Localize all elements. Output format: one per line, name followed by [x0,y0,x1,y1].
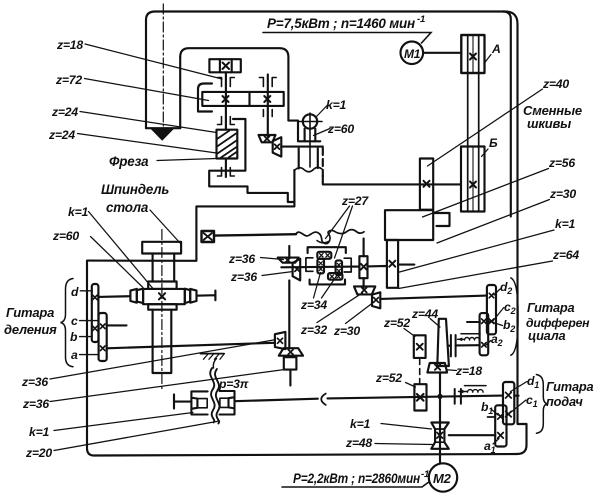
table worm wheel z=60 housing [143,289,185,304]
svg-text:z=32: z=32 [300,323,327,337]
svg-text:z=64: z=64 [552,248,579,262]
leader z=60 table wheel [91,237,144,288]
svg-text:c1: c1 [526,393,538,409]
brace differential guitar [511,278,518,355]
bearing [218,168,235,177]
svg-text:z=40: z=40 [542,77,569,91]
svg-text:z=36: z=36 [228,252,255,266]
housing lower step [209,119,294,202]
satellite z=27 upper [317,252,331,259]
bevel z=36 on index shaft [275,332,286,349]
table screw end bar [174,395,191,409]
table spindle flange [142,242,181,254]
svg-text:z=60: z=60 [327,122,354,136]
gear z=18 top shift box [209,59,240,72]
worm shaft coupling right [190,289,196,303]
svg-text:k=1: k=1 [68,205,88,219]
hob slide column [146,20,180,128]
cone z=44 [437,319,449,366]
differential guitar column c2/d2 [487,285,496,334]
leader z=48 [375,444,433,445]
svg-text:a: a [71,348,78,362]
brace feed guitar [536,375,547,434]
bearing bracket [433,213,449,226]
leader стола [150,210,181,244]
leader a2 [486,341,491,346]
column center line (dash-dot) [162,4,164,126]
hob head housing outline [180,48,320,141]
bevel z=32 [354,286,375,294]
leader d2 [494,289,500,295]
bearing [259,78,276,87]
gear z=52 upper [414,335,426,358]
svg-text:d: d [71,285,79,299]
bevel z=36 on vertical shaft [279,348,303,356]
motor M2 [429,463,457,491]
svg-text:z=48: z=48 [345,436,372,450]
svg-text:z=60: z=60 [52,229,79,243]
differential left bearing bracket [306,258,313,272]
title underline top [263,33,431,44]
leader z=56 [423,169,549,218]
worm k=1 circle (hob head) [303,114,317,128]
svg-text:a1: a1 [484,439,496,455]
leader a1 [493,439,499,445]
gear on differential output [359,256,367,278]
pulley Б [461,147,485,212]
feed shaft to coupling [235,399,318,402]
leader z=18 bevel [447,369,457,372]
svg-text:шкивы: шкивы [527,116,571,131]
svg-text:z=36: z=36 [230,270,257,284]
leader z=20 screw wheel [54,421,220,451]
frame outer border [87,12,527,456]
svg-text:Р=2,2кВт ; n=2860мин: Р=2,2кВт ; n=2860мин [293,471,420,486]
overload spring (feed) [465,385,487,387]
svg-text:c: c [71,314,78,328]
fixed support (hatched) [200,353,224,355]
svg-text:z=52: z=52 [383,316,410,330]
leader z=64 [399,261,553,289]
svg-text:Гитара: Гитара [6,305,54,320]
feed guitar column d1/c1 [503,382,514,424]
d1 stub to frame [514,395,518,397]
bearing [263,110,272,117]
differential right bearing bracket [344,258,357,272]
svg-text:z=44: z=44 [411,307,438,321]
shaft II (hob drive right) [267,75,269,137]
bevel pair on hob head (z=24/z=24) [259,135,276,142]
leader z=44 [430,319,440,328]
svg-text:деления: деления [4,322,57,337]
bearing [218,117,235,125]
leader c1 [511,400,527,413]
p=3pi label wave tail [213,359,216,369]
leader z=40 [428,89,543,166]
index guitar gear column c/a [99,313,107,361]
motor M1 [401,42,424,65]
differential carrier bottom bracket [310,280,345,285]
svg-text:a2: a2 [491,332,503,348]
wire from clutch node to break [214,234,296,235]
leader c2 [493,308,504,322]
leader z=27 to satellite [335,206,353,258]
lower break wave [296,230,364,244]
frame connection line to clutch node [87,170,294,261]
svg-text:А: А [491,42,501,56]
svg-text:z=30: z=30 [549,187,576,201]
svg-text:Шпиндель: Шпиндель [101,182,169,197]
leader Б [482,149,489,157]
hob spindle lower end [225,159,227,178]
index guitar gear column d/b [92,284,99,342]
differential input shaft [281,266,359,269]
svg-text:Р=7,5кВт ; n=1460 мин: Р=7,5кВт ; n=1460 мин [267,16,415,31]
svg-text:z=34: z=34 [300,298,327,312]
leader z=24 lower [78,134,217,154]
leader фреза [157,159,217,161]
svg-text:z=20: z=20 [25,446,52,460]
gearbox z=56/z=30 [385,210,433,240]
differential guitar column a2/b2 [480,313,489,355]
worm shaft right segment with end bar [197,291,216,301]
leader k=1 diff worm [400,230,555,272]
overload spring (differential) [461,333,480,335]
svg-text:Б: Б [489,136,498,150]
leader z=60 hob wheel [314,129,331,136]
cone output stub [449,345,451,347]
leader z=32 [317,293,363,323]
vertical shaft of differential output [363,239,365,288]
shaft I (hob drive left) [225,72,227,130]
leader b2 [487,321,503,326]
satellite z=27 lower [328,273,342,280]
milling cutter (фреза) hatched block [217,130,238,159]
leader z=36 diff bevel h [262,272,293,276]
vertical shaft of index train [288,246,290,349]
svg-text:Фреза: Фреза [109,154,149,169]
svg-text:z=18: z=18 [455,364,482,378]
leader b1 [491,409,498,415]
svg-text:k=1: k=1 [326,98,346,112]
gear c stub shaft [107,324,127,326]
leader k=1 M2 worm [381,424,432,430]
svg-text:k=1: k=1 [350,417,370,431]
differential clutch jaws [451,335,456,356]
svg-text:стола: стола [106,200,149,215]
bevel z=36 (horizontal axis) [293,259,301,281]
housing inner wall [198,84,212,112]
svg-text:p=3π: p=3π [218,377,249,391]
vertical shaft to M2 [439,373,441,463]
feed shaft [328,396,504,399]
b1 stub [488,416,496,418]
leader z=27 to break [326,206,350,239]
spindle center line (dash-dot) [161,230,163,391]
leader z=52 upper [404,329,415,337]
svg-text:z=24: z=24 [51,105,78,119]
gear z=36 on feed drop shaft [284,357,297,369]
svg-text:-1: -1 [421,469,429,480]
svg-text:k=1: k=1 [555,217,575,231]
screw nut right (wheel z=20) [220,391,235,415]
worm wheel z=60 housing (break) [299,149,318,169]
svg-text:М2: М2 [433,471,452,486]
svg-text:Гитара: Гитара [527,300,574,315]
worm pedestal columns [305,129,316,142]
svg-text:b1: b1 [481,400,493,416]
frame inner line (pulley bay) [503,12,511,217]
leader z=34 to sun left [314,273,321,299]
leader z=36 index bevel 1 [50,340,275,379]
svg-text:b2: b2 [503,318,515,334]
svg-text:циала: циала [528,328,566,343]
feed clutch jaws [455,389,461,404]
leader z=30 box [437,200,550,244]
bevel z=30 [372,292,380,308]
spindle collar lower [148,304,176,310]
svg-text:z=24: z=24 [48,128,75,142]
brace index guitar [61,279,74,367]
shaft junction [437,394,442,399]
differential carrier top bracket [308,247,346,253]
b2 stub shaft [467,321,480,323]
worm shaft coupling left [130,289,136,303]
pulley A [461,35,484,73]
gear z=52 lower [414,384,426,410]
leader k=1 table worm [89,212,153,289]
svg-text:Гитара: Гитара [546,379,593,394]
bevel z=36 (vertical axis) [278,258,299,263]
leader z=36 index bevel 2 [50,370,284,402]
leader z=52 lower [406,383,416,388]
gear block z=72 / gear [202,92,283,106]
svg-text:подач: подач [546,394,583,409]
column arrow [151,129,175,141]
leader z=24 upper [80,112,217,133]
shaft to differential guitar [380,296,487,299]
table spindle column [153,310,172,373]
svg-text:z=36: z=36 [21,375,48,389]
gear z=40 [420,159,433,210]
svg-text:-1: -1 [417,14,425,25]
table spindle neck [153,254,175,282]
leader z=30 bevel [346,302,375,324]
clutch node (boxed X) [202,231,215,242]
svg-text:z=72: z=72 [55,73,82,87]
feed guitar column b1/a1 [495,405,506,446]
dashed tie between z=52 gears [419,359,421,385]
svg-text:d1: d1 [527,374,539,390]
leader d1 [511,382,528,392]
svg-text:z=18: z=18 [56,38,83,52]
leader k=1 hob worm [317,105,329,117]
spindle collar upper [148,282,176,289]
sun gear left [317,259,324,274]
bevel z=18 [427,363,447,373]
label ties d,c,b,a [80,291,99,355]
svg-text:b: b [70,330,78,344]
belt [468,36,479,212]
leader A [484,55,491,64]
upper break wave [294,167,322,171]
svg-text:z=52: z=52 [375,371,402,385]
leader z=72 [85,79,209,101]
svg-text:k=1: k=1 [29,425,49,439]
leader z=18 [85,44,222,79]
index train long shaft [107,343,275,349]
horizontal shaft to differential (dashed drop) [281,146,323,148]
bearing [218,78,235,87]
screw break wave [210,368,214,423]
shaft M2 worm to a1 [449,434,495,436]
svg-text:z=30: z=30 [333,324,360,338]
svg-text:z=56: z=56 [548,156,575,170]
svg-text:c2: c2 [504,300,516,316]
screw nut left (worm) [191,391,207,414]
sun gear right [336,260,342,275]
leader z=34 to sun right [322,275,338,299]
shaft to gear a2 [456,344,480,346]
leader z=36 diff bevel v [261,258,284,260]
title underline bottom [282,482,430,488]
shaft break coupling [321,394,325,405]
svg-text:d2: d2 [500,280,512,296]
svg-text:z=27: z=27 [341,194,369,208]
leader k=1 screw worm [54,413,193,431]
svg-text:М1: М1 [404,47,421,61]
worm z=48 on M2 shaft [431,423,449,449]
svg-text:z=36: z=36 [22,397,49,411]
worm shaft left segment [98,295,130,298]
gear z=64 [387,240,398,288]
